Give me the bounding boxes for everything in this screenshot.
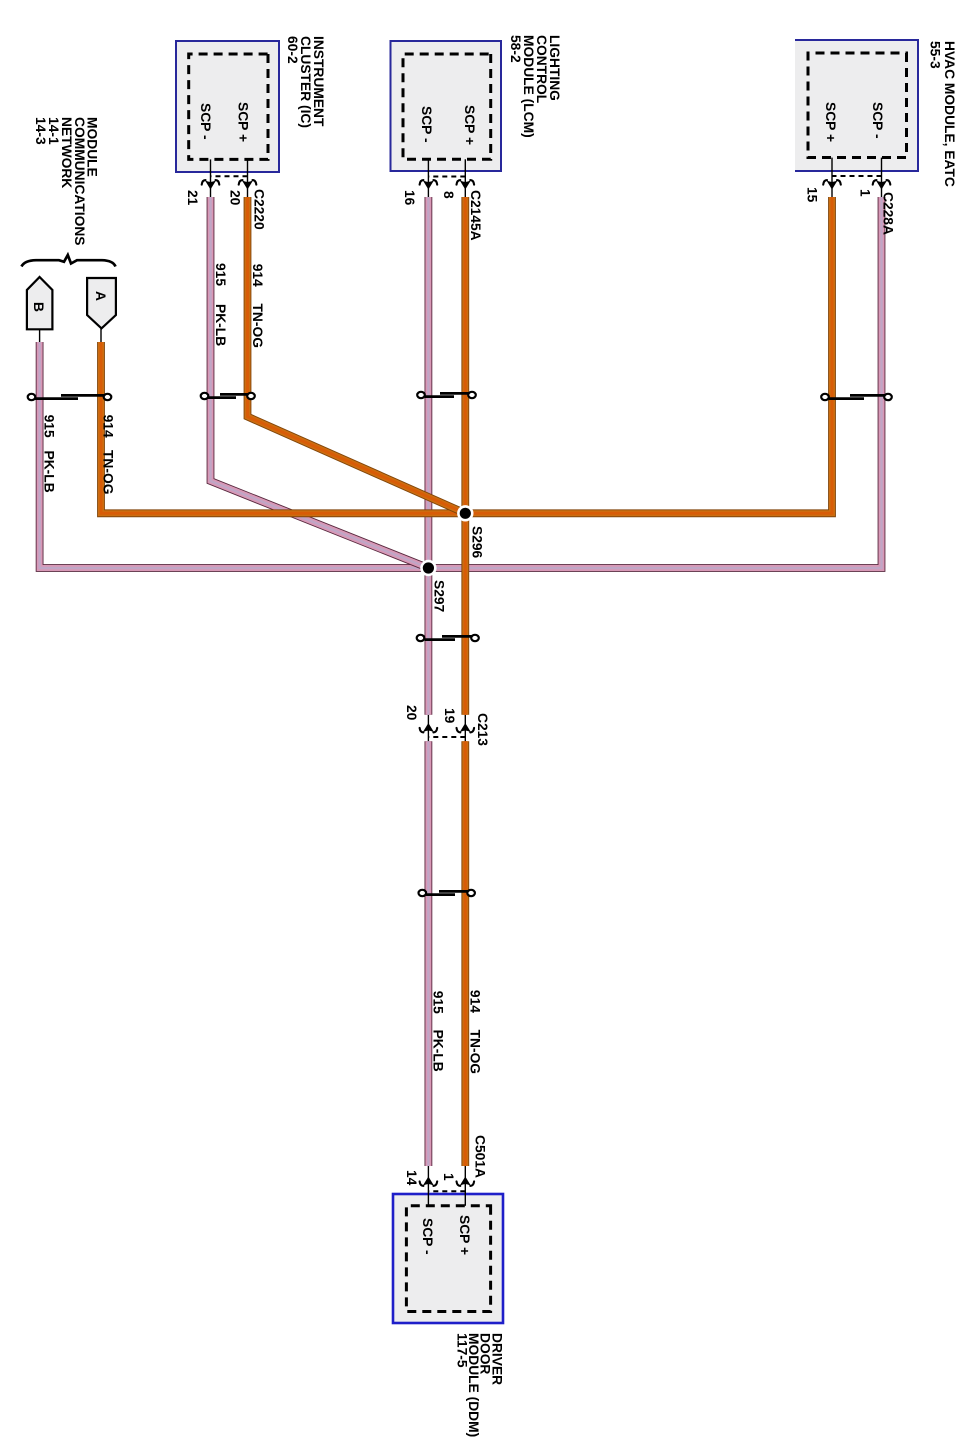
clip on right pair near DDM bbox=[419, 890, 475, 896]
svg-text:8: 8 bbox=[441, 191, 456, 199]
svg-text:915: 915 bbox=[431, 991, 446, 1014]
terminal arrow IC pin 20 bbox=[239, 180, 257, 190]
pin stub HVAC pin 1 bbox=[881, 158, 883, 197]
module box LIGHTING CONTROL MODULE (LCM) bbox=[391, 41, 502, 171]
svg-text:914: 914 bbox=[250, 264, 265, 287]
brace grouping network wires bbox=[22, 255, 116, 267]
terminal arrow LCM pin 8 bbox=[457, 180, 475, 190]
pin stub C213 orange side bbox=[464, 715, 466, 742]
svg-text:TN-OG: TN-OG bbox=[101, 450, 116, 494]
pin stub HVAC pin 15 bbox=[831, 158, 833, 197]
module name LIGHTING CONTROL MODULE (LCM) 58-2 bbox=[508, 35, 562, 138]
svg-text:TN-OG: TN-OG bbox=[250, 304, 265, 348]
svg-text:20: 20 bbox=[228, 190, 243, 206]
wire 915 PK-LB HVAC to bus to B arrow bbox=[40, 197, 882, 568]
wire 914 TN-OG IC segment with diagonal to S296 bbox=[248, 197, 466, 513]
module box HVAC MODULE EATC bbox=[795, 40, 918, 171]
pin stub LCM pin 16 bbox=[427, 159, 429, 197]
svg-text:PK-LB: PK-LB bbox=[431, 1030, 446, 1072]
svg-text:914: 914 bbox=[101, 415, 116, 438]
svg-text:915: 915 bbox=[213, 263, 228, 286]
pin stub LCM pin 8 bbox=[464, 159, 466, 197]
terminal arrow HVAC pin 1 bbox=[873, 180, 891, 190]
svg-text:PK-LB: PK-LB bbox=[42, 451, 57, 493]
clip on HVAC pair bbox=[821, 394, 892, 400]
clip on LCM pair bbox=[417, 392, 476, 398]
svg-text:S296: S296 bbox=[470, 526, 485, 559]
svg-text:C2145A: C2145A bbox=[468, 190, 483, 241]
splice S296 bbox=[457, 505, 484, 558]
svg-text:SCP +: SCP + bbox=[236, 102, 251, 142]
module box DRIVER DOOR MODULE (DDM) bbox=[393, 1194, 503, 1323]
svg-text:S297: S297 bbox=[432, 580, 447, 613]
clip on IC pair bbox=[201, 393, 255, 399]
svg-text:60-2: 60-2 bbox=[285, 36, 300, 64]
wire 915 PK-LB LCM segment bbox=[425, 197, 433, 715]
svg-text:20: 20 bbox=[404, 705, 419, 721]
svg-text:TN-OG: TN-OG bbox=[468, 1030, 483, 1074]
terminal arrow C501A pin 14 bbox=[420, 1177, 438, 1187]
off-page arrow A stub wire bbox=[100, 328, 102, 342]
svg-text:SCP -: SCP - bbox=[870, 102, 885, 139]
pin stub IC pin 20 bbox=[247, 159, 249, 197]
connector C213 dashed tie bbox=[428, 736, 465, 738]
wire 915 PK-LB IC segment with diagonal to S297 bbox=[211, 197, 429, 568]
svg-text:SCP +: SCP + bbox=[462, 105, 477, 145]
svg-text:SCP +: SCP + bbox=[457, 1215, 472, 1255]
terminal arrow HVAC pin 15 bbox=[823, 180, 841, 190]
splice S297 bbox=[420, 560, 446, 613]
connector C2145A dashed tie bbox=[428, 176, 465, 178]
terminal arrow C213 pin 19 bbox=[457, 723, 475, 733]
svg-text:1: 1 bbox=[441, 1173, 456, 1181]
wire 914 TN-OG HVAC to bus to A arrow bbox=[101, 197, 832, 513]
module name INSTRUMENT CLUSTER (IC) 60-2 bbox=[285, 36, 326, 128]
pin stub IC pin 21 bbox=[210, 159, 212, 197]
svg-text:B: B bbox=[31, 302, 46, 312]
connector C501A dashed tie bbox=[428, 1190, 465, 1192]
svg-text:16: 16 bbox=[402, 190, 417, 206]
svg-text:C2220: C2220 bbox=[252, 189, 267, 230]
svg-text:914: 914 bbox=[468, 990, 483, 1013]
svg-text:117-5: 117-5 bbox=[455, 1333, 470, 1368]
svg-text:A: A bbox=[93, 291, 108, 301]
pin stub C213 pink side bbox=[427, 715, 429, 742]
off-page arrow B bbox=[27, 277, 53, 329]
wire 914 TN-OG C213 to DDM segment bbox=[461, 741, 469, 1166]
svg-text:C501A: C501A bbox=[473, 1135, 488, 1178]
svg-text:SCP -: SCP - bbox=[419, 106, 434, 143]
label MODULE COMMUNICATIONS NETWORK 14-1 14-3 bbox=[33, 117, 100, 246]
svg-text:1: 1 bbox=[858, 189, 873, 197]
connector C2220 dashed tie bbox=[211, 175, 248, 177]
module name DRIVER DOOR MODULE (DDM) 117-5 bbox=[455, 1333, 505, 1437]
svg-text:15: 15 bbox=[805, 187, 820, 203]
terminal arrow IC pin 21 bbox=[202, 180, 220, 190]
svg-text:HVAC MODULE, EATC: HVAC MODULE, EATC bbox=[942, 41, 957, 187]
pin stub DDM pin 14 bbox=[427, 1166, 429, 1206]
svg-text:915: 915 bbox=[42, 415, 57, 438]
connector C228A dashed tie bbox=[832, 175, 882, 177]
terminal arrow LCM pin 16 bbox=[420, 180, 438, 190]
svg-text:14-3: 14-3 bbox=[33, 117, 48, 145]
terminal arrow C213 pin 20 bbox=[420, 723, 438, 733]
svg-text:C228A: C228A bbox=[881, 192, 896, 235]
off-page arrow A bbox=[87, 278, 116, 328]
clip on A/B pair bbox=[28, 394, 112, 400]
clip on LCM pair below splices bbox=[417, 635, 479, 641]
wire 915 PK-LB C213 to DDM segment bbox=[425, 741, 433, 1166]
svg-text:PK-LB: PK-LB bbox=[213, 304, 228, 346]
svg-text:21: 21 bbox=[185, 190, 200, 206]
svg-text:C213: C213 bbox=[475, 713, 490, 746]
svg-text:SCP -: SCP - bbox=[420, 1218, 435, 1255]
module name HVAC MODULE, EATC 55-3 bbox=[928, 41, 958, 187]
svg-text:SCP -: SCP - bbox=[198, 103, 213, 140]
pin stub DDM pin 1 bbox=[464, 1166, 466, 1206]
svg-text:SCP +: SCP + bbox=[823, 102, 838, 142]
module box INSTRUMENT CLUSTER (IC) bbox=[176, 41, 279, 172]
off-page arrow B stub wire bbox=[39, 329, 41, 342]
svg-text:19: 19 bbox=[442, 708, 457, 724]
terminal arrow C501A pin 1 bbox=[457, 1177, 475, 1187]
svg-text:14: 14 bbox=[404, 1170, 419, 1186]
svg-text:55-3: 55-3 bbox=[928, 41, 943, 69]
wire 914 TN-OG LCM segment bbox=[461, 197, 469, 715]
svg-text:58-2: 58-2 bbox=[508, 35, 523, 63]
